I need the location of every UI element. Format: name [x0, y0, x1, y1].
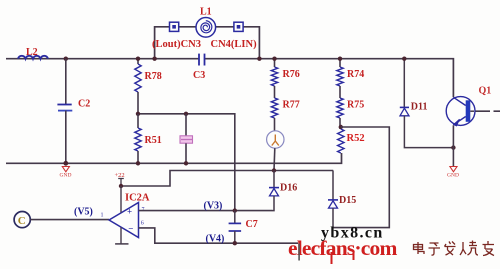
svg-text:(V5): (V5)	[74, 207, 93, 218]
op-amp IC2A	[101, 193, 150, 238]
capacitor C7	[229, 211, 258, 244]
node junction R74 top	[338, 57, 342, 61]
diode D16	[269, 171, 297, 211]
connector CN4 pad	[234, 22, 243, 31]
wire emitter to gnd	[452, 148, 454, 166]
svg-text:L2: L2	[26, 47, 38, 58]
node junction L1 left	[152, 57, 156, 61]
svg-text:C3: C3	[193, 70, 205, 81]
svg-text:(Lout)CN3: (Lout)CN3	[152, 39, 201, 50]
resistor R76	[271, 59, 299, 98]
watermark drip 3	[353, 253, 355, 260]
wire main top bus left	[6, 58, 199, 60]
diode D15	[328, 171, 356, 228]
svg-text:CN4(LIN): CN4(LIN)	[211, 39, 258, 50]
svg-text:(V4): (V4)	[206, 234, 225, 245]
wire opamp V- stub	[115, 227, 128, 244]
watermark drip 2	[331, 252, 333, 264]
capacitor C2	[57, 59, 90, 164]
node junction emitter/D11	[451, 145, 455, 149]
node junction L1 right	[257, 57, 261, 61]
resistor R52	[338, 129, 365, 153]
resistor R75	[337, 98, 364, 129]
ground GND left	[60, 167, 72, 179]
wire L1 branch	[155, 27, 260, 59]
svg-text:R78: R78	[145, 71, 162, 82]
watermark chinese 友	[483, 241, 495, 256]
resistor R51	[135, 114, 162, 164]
watermark chinese 烧	[460, 241, 478, 256]
svg-text:C7: C7	[246, 219, 258, 230]
wire net V3	[139, 210, 273, 212]
svg-text:GND: GND	[60, 173, 72, 179]
svg-text:IC2A: IC2A	[125, 193, 150, 204]
svg-text:R52: R52	[347, 133, 365, 144]
node junction R75/R52	[339, 125, 343, 129]
svg-text:Q1: Q1	[479, 86, 492, 97]
watermark chinese 电	[414, 242, 425, 254]
svg-text:R74: R74	[347, 69, 364, 80]
wire +22 net	[121, 171, 333, 187]
svg-text:C2: C2	[78, 99, 90, 110]
svg-text:(V3): (V3)	[204, 201, 223, 212]
svg-text:D16: D16	[280, 183, 297, 194]
inductor L2	[18, 47, 48, 59]
watermark drip 1	[298, 244, 300, 261]
svg-text:6: 6	[141, 221, 144, 227]
wire port to opamp	[30, 219, 109, 221]
diode D11	[400, 59, 454, 148]
svg-text:1: 1	[101, 213, 104, 219]
svg-text:L1: L1	[200, 7, 212, 18]
node junction vplus	[119, 184, 123, 188]
wire bottom bus (gnd bus)	[6, 153, 342, 163]
svg-text:R75: R75	[347, 100, 364, 111]
node junction V3/C7	[233, 208, 237, 212]
svg-text:D15: D15	[339, 195, 356, 206]
connector C (left port)	[14, 212, 30, 228]
svg-text:C: C	[18, 215, 26, 227]
watermark chinese 发	[445, 242, 456, 256]
wire net V4	[139, 228, 299, 243]
node junction gnd bus R51	[136, 161, 140, 165]
svg-text:D11: D11	[411, 102, 428, 113]
svg-text:GND: GND	[447, 173, 459, 179]
wire opamp V+ stub	[120, 186, 122, 213]
svg-text:R77: R77	[283, 100, 300, 111]
resistor R78	[135, 59, 162, 114]
inductor L1 (spiral)	[196, 7, 216, 38]
capacitor C3 (series in bus)	[193, 54, 205, 81]
resistor R74	[337, 59, 364, 98]
wire main top bus right	[205, 59, 454, 98]
svg-text:elecfans·com: elecfans·com	[288, 236, 397, 260]
power flag +22	[115, 172, 125, 186]
watermark chinese 子	[429, 243, 441, 255]
capacitor CY (magenta component)	[180, 114, 193, 164]
transistor Q1	[446, 86, 500, 148]
lamp / probe circle	[267, 131, 284, 171]
node junction C2-top	[64, 57, 68, 61]
connector CN3 pad	[170, 22, 179, 31]
node junction +22/D16	[272, 168, 276, 172]
node junction (138,114)	[136, 112, 140, 116]
node junction R78 top	[136, 57, 140, 61]
node junction V4/C7	[233, 241, 237, 245]
svg-text:R51: R51	[145, 135, 162, 146]
resistor R77	[271, 98, 299, 131]
svg-text:R76: R76	[283, 69, 300, 80]
ground GND right	[447, 167, 459, 179]
node junction (186,114)	[184, 112, 188, 116]
node junction R76 top	[272, 57, 276, 61]
svg-text:+: +	[127, 207, 132, 217]
node junction gnd bus C2	[63, 161, 68, 166]
node junction gnd bus CY	[184, 161, 188, 165]
node junction D11 top	[402, 57, 406, 61]
svg-text:−: −	[128, 223, 133, 233]
wire feedback loop	[333, 127, 390, 228]
wire mid horizontal y114	[138, 114, 235, 211]
